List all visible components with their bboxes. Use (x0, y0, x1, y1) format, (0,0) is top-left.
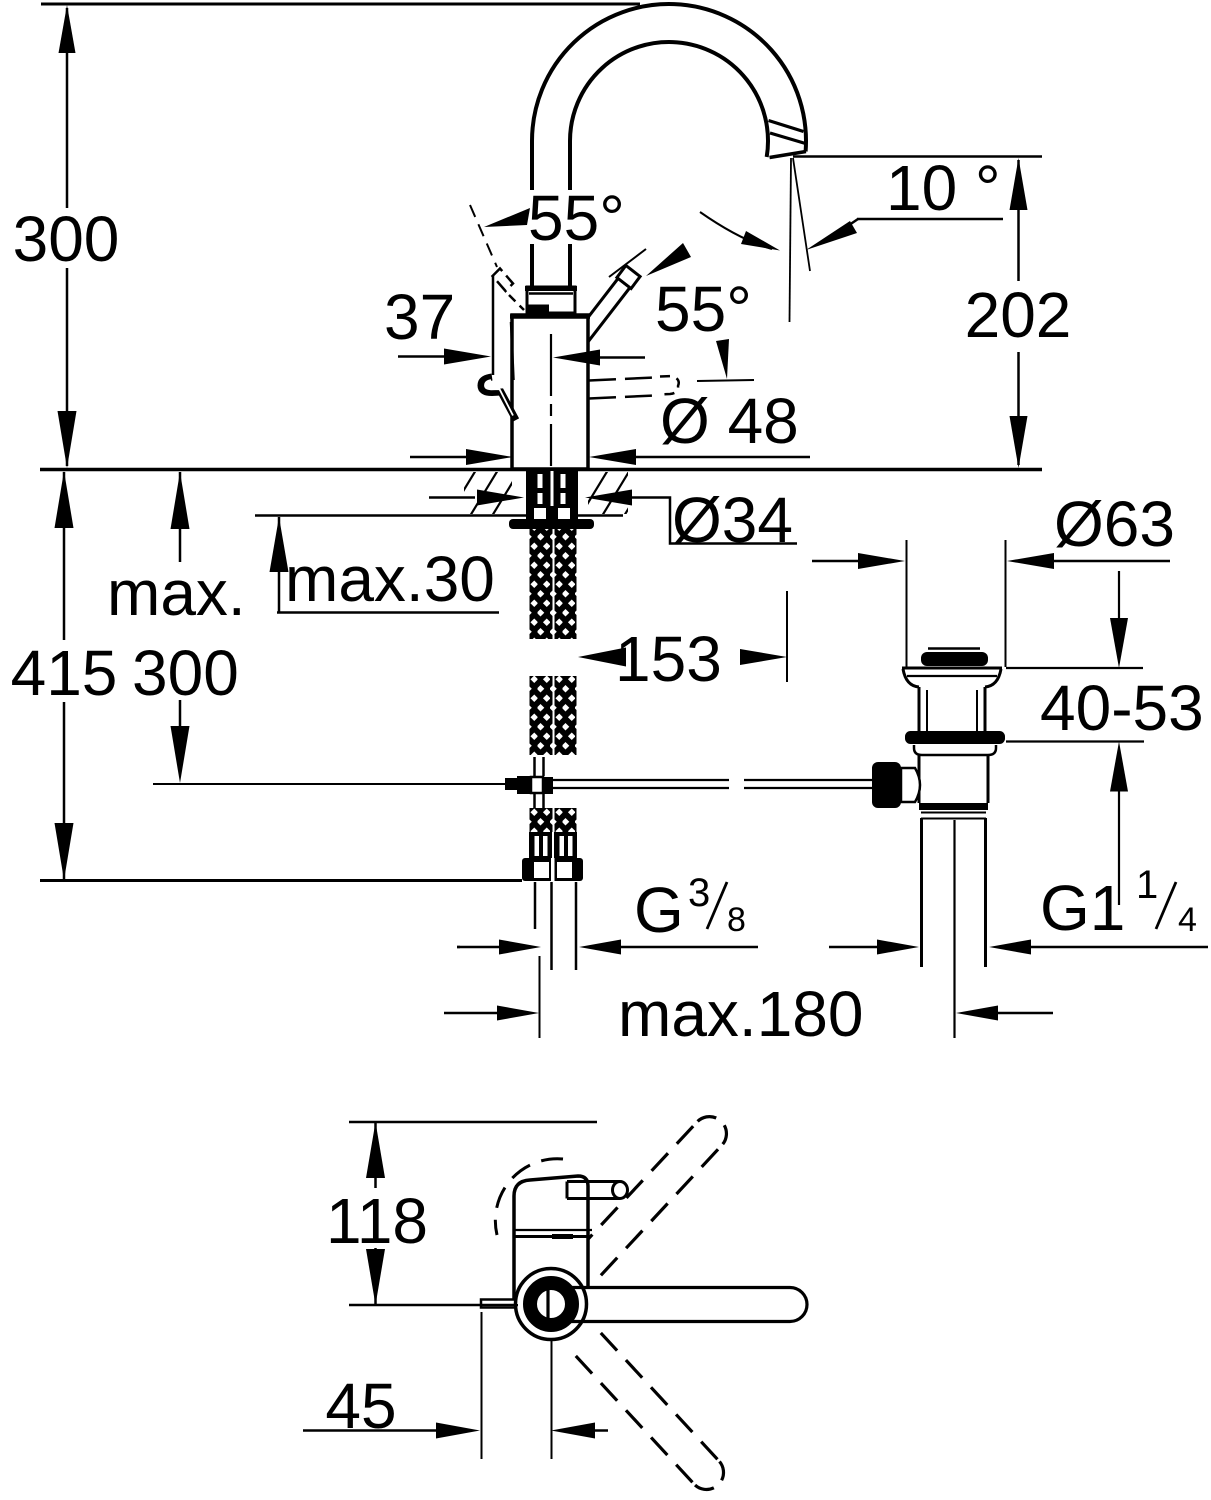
svg-text:Ø63: Ø63 (1054, 488, 1175, 560)
dim O34 left arrowhead (477, 490, 524, 506)
spout tip vertical line (790, 158, 792, 322)
svg-text:8: 8 (727, 901, 746, 939)
dashed spout position lower (576, 1356, 695, 1485)
mounting flange (509, 519, 594, 529)
dim O34 line left (429, 496, 475, 499)
55deg first left arrowhead (484, 208, 530, 227)
dim max30 line (278, 517, 281, 612)
top ref line (41, 3, 640, 6)
braided hose lower right (555, 676, 577, 755)
10deg arc arrowhead (741, 231, 780, 251)
counter underside line (255, 514, 623, 517)
drain ext line right (1005, 540, 1007, 667)
svg-text:300: 300 (13, 203, 120, 275)
dashed lever horizontal top line (589, 378, 655, 381)
dashed dome arc (516, 1213, 588, 1221)
supply pipe wall b (550, 882, 553, 970)
10deg arc (700, 212, 772, 249)
svg-text:3: 3 (688, 871, 710, 915)
hose fitting body left (529, 832, 552, 858)
dim 37 line right (600, 356, 645, 359)
braided hose upper left (530, 529, 553, 639)
dim 415 top arrowhead (55, 471, 74, 528)
handle left edge (492, 276, 495, 375)
dim G38 right arrowhead (579, 940, 621, 955)
hatch left (448, 470, 564, 516)
svg-text:300: 300 (132, 637, 239, 709)
dim 118 top arrowhead (366, 1122, 385, 1178)
dim 300 top arrowhead (59, 5, 76, 53)
dashed lever horizontal bottom line (589, 396, 655, 399)
drain lower band (919, 803, 988, 810)
max30 underline (277, 611, 499, 614)
dim 45 line tail (595, 1429, 608, 1432)
tee body (531, 777, 543, 793)
spout collar (527, 287, 575, 313)
dim 153 ext line (786, 591, 788, 682)
svg-text:max.180: max.180 (618, 978, 863, 1050)
dim 118 line (374, 1122, 377, 1188)
dim G38 line right (621, 946, 758, 949)
dim 300 bottom arrowhead (58, 411, 77, 468)
55deg second arrowhead (716, 339, 729, 379)
drain locknut (905, 731, 1005, 744)
dim O63 line right (1054, 560, 1170, 563)
dim 300 line (66, 8, 69, 208)
tailpipe top lines (921, 812, 986, 814)
dim 40-53 top line (1006, 667, 1143, 669)
bottomview top ref line (349, 1121, 597, 1124)
handle hook (481, 377, 516, 420)
dim max300 line (179, 472, 182, 562)
spout outer arc (532, 4, 806, 151)
handle hook inner white (485, 380, 513, 415)
braided hose upper right (555, 529, 577, 639)
spout outlet end face (770, 152, 807, 158)
spout left pipe outer wall (530, 141, 534, 288)
horizontal ref line for dashed lever (697, 380, 754, 381)
topview body dark tick (552, 1234, 573, 1239)
dim 202 bottom arrowhead (1010, 416, 1028, 468)
dim G114 line right (1031, 946, 1208, 949)
rod socket (901, 768, 920, 802)
dim 37 right arrowhead (553, 350, 600, 366)
baseline ref line (40, 879, 522, 882)
topview body step line (515, 1229, 592, 1231)
topview body cap (514, 1176, 588, 1236)
svg-text:G: G (634, 874, 684, 946)
svg-text:max.30: max.30 (285, 543, 495, 615)
tailpipe walls (920, 818, 923, 967)
dim max300 top arrowhead (171, 472, 190, 529)
tailpipe centerline (953, 820, 955, 1038)
dim 202 top arrowhead (1010, 158, 1028, 210)
spout left pipe inner wall (568, 141, 572, 288)
dim 45 left arrowhead (436, 1423, 480, 1439)
dim G114 right arrowhead (989, 940, 1031, 955)
pull rod right segment (744, 779, 874, 781)
popup knob top line (928, 647, 980, 650)
dim O63 line left (812, 560, 858, 563)
supply pipe wall a (534, 882, 537, 929)
dashed lever shaft (509, 295, 524, 310)
dim G38 left arrowhead (499, 940, 541, 955)
topview body fill (514, 1236, 588, 1304)
drain flange right curve (985, 669, 1001, 687)
lever rod end cap (617, 266, 640, 289)
drain washer band (914, 745, 996, 755)
svg-text:4: 4 (1178, 901, 1197, 939)
dim max180 line right (998, 1012, 1053, 1015)
svg-text:40-53: 40-53 (1040, 672, 1204, 744)
svg-text:202: 202 (965, 279, 1072, 351)
dim 40-53 top arrow line (1118, 571, 1120, 640)
dim 40-53 bottom line (1006, 740, 1144, 742)
svg-text:Ø34: Ø34 (672, 484, 793, 556)
10deg leader diagonal (830, 219, 858, 238)
dim O48 line left (410, 456, 466, 459)
dim 40-53 bottom arrow line (1118, 790, 1120, 905)
hatch right (580, 470, 674, 516)
drain body tube (918, 755, 921, 803)
dim O48 line right (636, 456, 810, 459)
dim 45 line (303, 1429, 438, 1432)
dashed lever angle ref line A (470, 205, 497, 267)
drain flange top (902, 667, 1002, 670)
dim G38 line left (457, 946, 460, 949)
svg-text:415: 415 (11, 637, 118, 709)
svg-text:118: 118 (326, 1185, 428, 1257)
tee lower tube (533, 794, 536, 809)
topview lever bar (548, 1288, 807, 1322)
dim O48 left arrowhead (466, 449, 513, 465)
dim 40-53 bottom arrowhead (1110, 742, 1128, 792)
drain ext line left (906, 540, 908, 667)
dim 45 right arrowhead (551, 1423, 595, 1439)
dim 415 line (63, 472, 66, 640)
dim 415 bottom arrowhead (55, 823, 74, 880)
topview spout stub (567, 1182, 620, 1199)
svg-text:55°: 55° (655, 273, 752, 345)
pull rod left segment (553, 779, 729, 781)
dim O34 leader (632, 498, 797, 544)
dim max180 left arrowhead (497, 1006, 539, 1021)
hose fitting body right (554, 832, 577, 858)
dim max180 line left (444, 1012, 497, 1015)
spout axis 10deg slanted line (793, 158, 810, 271)
dashed swivel arc left (495, 1159, 563, 1235)
dim O48 right arrowhead (589, 449, 636, 465)
dim O34 right arrowhead (585, 490, 632, 506)
rod knob (872, 762, 901, 808)
spout tip ref horizontal line (793, 155, 1042, 158)
dim 153 right arrowhead (740, 649, 787, 665)
topview outer circle (516, 1269, 587, 1340)
svg-text:max.: max. (107, 557, 246, 629)
10deg leader underline (857, 218, 1003, 221)
supply pipe wall c (575, 882, 578, 970)
white backing for label (524, 190, 640, 244)
topview inner ring (530, 1283, 572, 1325)
faucet body (512, 315, 588, 469)
hose fitting braid left (530, 808, 553, 832)
spout inner arc (570, 42, 768, 157)
dim max30 arrowhead (270, 517, 289, 572)
dim 40-53 top arrowhead (1110, 618, 1128, 668)
dashed lever horizontal cap (658, 376, 679, 395)
dim max180 right arrowhead (956, 1006, 998, 1021)
svg-text:1: 1 (1136, 863, 1158, 907)
svg-text:Ø 48: Ø 48 (660, 385, 799, 457)
threaded shank (526, 471, 578, 506)
topview body sides (512, 1236, 516, 1300)
tee left nut (505, 778, 518, 790)
hose fitting braid right (555, 808, 577, 832)
faucet centerline lower (539, 956, 541, 1038)
topview left tab (481, 1300, 514, 1308)
shank lower thread (526, 506, 578, 519)
body centerline (550, 334, 552, 466)
svg-text:153: 153 (615, 623, 722, 695)
dashed lever end cap (493, 269, 514, 292)
dim O63 right arrowhead (1007, 553, 1054, 569)
handle right edge (511, 322, 514, 380)
drain flange left curve (903, 669, 919, 687)
connection nut (522, 858, 583, 881)
lever rod solid (55deg position) (574, 278, 630, 344)
dim 118 bottom arrowhead (366, 1249, 385, 1305)
spout aerator band line 2 (770, 133, 806, 144)
55deg first right arrowhead (646, 243, 691, 276)
dim 45 ext line right (551, 1340, 553, 1459)
lever axis ref line B (609, 249, 646, 277)
dashed spout position upper (601, 1145, 723, 1276)
dim 37 left arrowhead (444, 349, 491, 365)
dim max300 bottom arrowhead (171, 726, 190, 783)
svg-text:G1: G1 (1040, 872, 1125, 944)
10deg leader arrowhead (806, 221, 857, 250)
dim G114 left arrowhead (877, 940, 919, 955)
braided hose lower left (530, 676, 553, 755)
dim G114 line left (829, 946, 877, 949)
bottomview bottom ref line (349, 1304, 518, 1307)
dim 153 left arrowhead (578, 648, 626, 667)
dim O63 left arrowhead (858, 553, 905, 569)
dim 37 line left (398, 355, 445, 358)
svg-text:10 °: 10 ° (886, 152, 1001, 224)
tee upper tube (533, 757, 536, 776)
tee right nut (543, 777, 553, 794)
countertop line (40, 468, 1042, 472)
drain neck walls (918, 687, 921, 731)
dim 202 line (1017, 160, 1020, 281)
dim 45 ext line left (481, 1312, 483, 1459)
svg-text:37: 37 (384, 281, 455, 353)
svg-text:55°: 55° (528, 182, 625, 254)
popup knob (921, 652, 988, 666)
rod ref line left (153, 783, 505, 785)
spout aerator band line 1 (769, 121, 804, 132)
collar black segment (526, 305, 549, 314)
